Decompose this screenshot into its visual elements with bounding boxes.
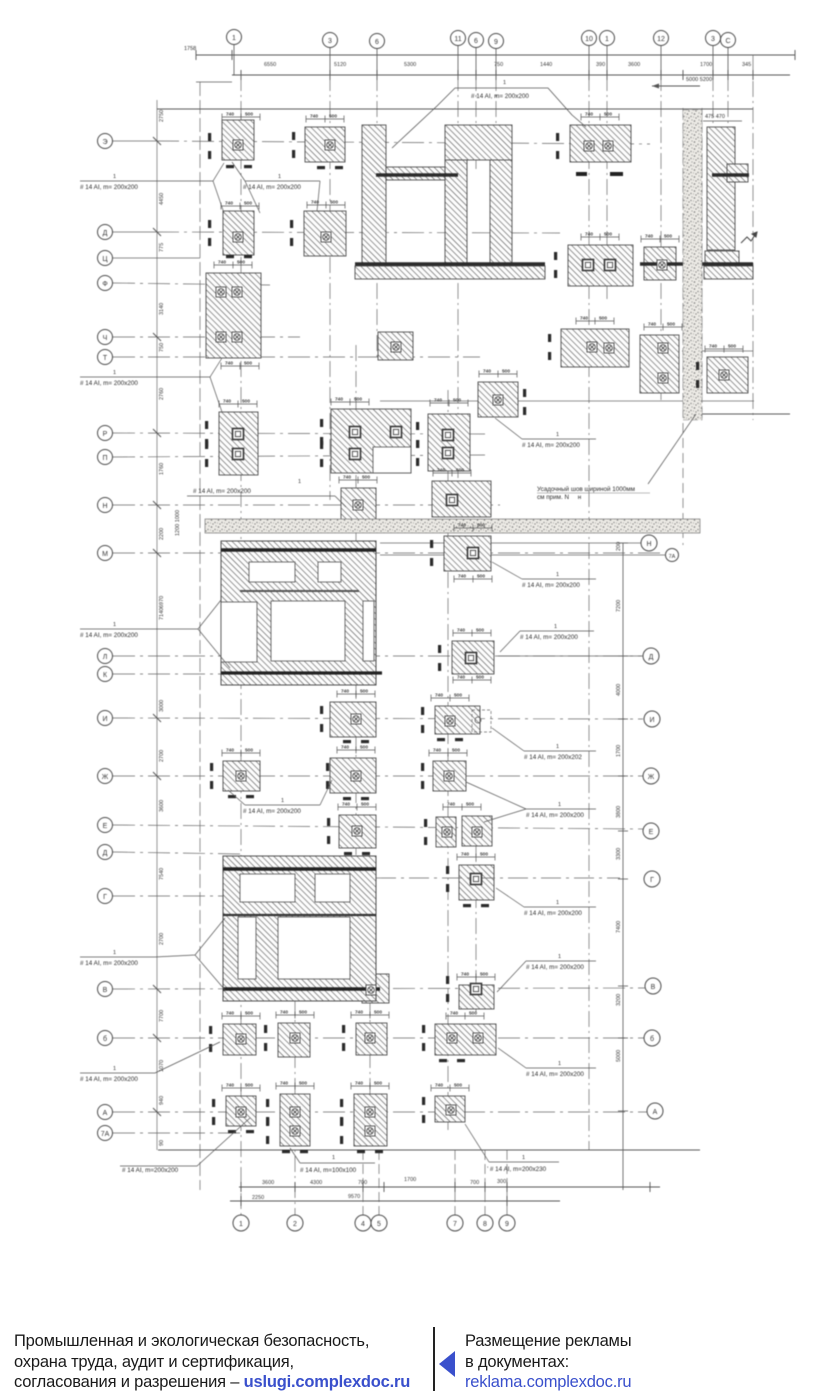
svg-text:Е: Е [103, 823, 108, 830]
svg-text:1: 1 [556, 572, 559, 578]
svg-text:# 14 AI, m= 200x200: # 14 AI, m= 200x200 [243, 184, 301, 191]
svg-text:7А: 7А [101, 1131, 110, 1138]
svg-text:3140: 3140 [159, 303, 165, 315]
bottom horizontal line y1150 [158, 1149, 700, 1151]
svg-text:2700: 2700 [159, 933, 165, 945]
label L20 [290, 1148, 375, 1174]
svg-text:390: 390 [596, 62, 605, 68]
label L10 [500, 624, 594, 652]
footing pad P30 row Г [459, 865, 494, 900]
label L9 [80, 600, 230, 668]
svg-text:И: И [649, 717, 654, 724]
big footing B1 rows Ф-Ч [206, 273, 261, 358]
svg-text:М: М [102, 551, 108, 558]
svg-text:# 14 AI, m= 200x200: # 14 AI, m= 200x200 [80, 960, 138, 967]
svg-text:Г: Г [650, 877, 654, 884]
svg-text:Н: Н [646, 541, 651, 548]
svg-text:1700: 1700 [616, 745, 622, 757]
heavy wall line mid left [355, 262, 545, 266]
footing pad P9 rows Р-П [331, 409, 411, 473]
svg-text:В: В [651, 984, 656, 991]
svg-text:1700: 1700 [700, 62, 712, 68]
hatch band under heavy line left [355, 266, 545, 279]
dim line y351 right [682, 350, 753, 352]
ring R2 heavy bottom line [223, 987, 380, 990]
svg-text:# 14 AI, m= 200x200: # 14 AI, m= 200x200 [80, 632, 138, 639]
label L7 joint note [537, 414, 696, 501]
footing pad P8 rows Р-П [219, 412, 258, 475]
svg-text:# 14 AI, m= 200x200: # 14 AI, m= 200x200 [193, 488, 251, 495]
svg-text:7540: 7540 [159, 868, 165, 880]
svg-text:1: 1 [503, 80, 506, 86]
svg-text:1: 1 [554, 624, 557, 630]
svg-text:2: 2 [293, 1221, 297, 1228]
footing pad P2 row Э [305, 127, 345, 162]
svg-text:940: 940 [159, 1096, 165, 1105]
heavy wall line top-right [376, 173, 458, 176]
footing pad P27 row Е [339, 815, 376, 848]
svg-text:3800: 3800 [616, 806, 622, 818]
svg-text:1: 1 [239, 1221, 243, 1228]
svg-text:1: 1 [522, 1155, 525, 1161]
svg-text:5000 5200: 5000 5200 [686, 77, 712, 83]
dim arrow [652, 85, 700, 87]
svg-text:1: 1 [281, 798, 284, 804]
north/section arrow [741, 232, 757, 243]
top axis circle labels [232, 35, 730, 46]
svg-text:Л: Л [103, 654, 108, 661]
svg-text:# 14 AI, m=100x100: # 14 AI, m=100x100 [300, 1167, 357, 1174]
svg-text:90: 90 [159, 1140, 165, 1146]
svg-text:1: 1 [298, 479, 301, 485]
svg-text:3600: 3600 [159, 800, 165, 812]
svg-text:700: 700 [470, 1180, 479, 1186]
svg-text:1700: 1700 [404, 1177, 416, 1183]
svg-text:Д: Д [103, 230, 108, 237]
svg-text:# 14 AI, m= 200x202: # 14 AI, m= 200x202 [524, 754, 582, 761]
footing pad P37 row А [280, 1094, 310, 1146]
ring R2 openings [238, 874, 350, 979]
svg-text:1: 1 [278, 174, 281, 180]
svg-text:3000: 3000 [159, 700, 165, 712]
svg-text:6: 6 [474, 38, 478, 45]
ring R2 heavy top line [223, 867, 376, 871]
right rotated dim numbers [616, 542, 622, 1062]
bottom dim numbers 1 [262, 1177, 506, 1186]
right vertical dim line [618, 543, 628, 1190]
footing pad P15 [705, 251, 739, 277]
footing pad P36 row А [226, 1096, 256, 1126]
label L13 [466, 782, 596, 822]
label L17 [80, 1042, 220, 1083]
svg-text:1: 1 [558, 954, 561, 960]
footing pad PR right [707, 357, 748, 393]
svg-text:1: 1 [113, 622, 116, 628]
svg-text:В: В [103, 987, 108, 994]
svg-text:2250: 2250 [252, 1195, 264, 1201]
svg-text:Е: Е [649, 829, 654, 836]
svg-text:Р: Р [103, 431, 108, 438]
label L8 [492, 562, 596, 589]
label L5 [495, 418, 596, 449]
svg-text:# 14 AI, m= 200x200: # 14 AI, m= 200x200 [526, 812, 584, 819]
footing pad P34 row б [356, 1023, 387, 1055]
svg-text:# 14 AI, m= 200x200: # 14 AI, m= 200x200 [524, 910, 582, 917]
svg-text:5300: 5300 [404, 62, 416, 68]
footing pad P23 row И [435, 706, 480, 734]
footing pad P11 [478, 382, 518, 417]
wall block S2 [445, 125, 512, 160]
svg-text:Ц: Ц [102, 256, 108, 263]
svg-text:1: 1 [113, 950, 116, 956]
svg-text:2700: 2700 [159, 750, 165, 762]
svg-text:1: 1 [556, 900, 559, 906]
footing pad P3 row Э [570, 125, 631, 162]
bottom dim line 2 [230, 1196, 560, 1206]
svg-text:# 14 AI, m= 200x200: # 14 AI, m= 200x200 [520, 634, 578, 641]
svg-text:700: 700 [358, 1180, 367, 1186]
svg-text:750: 750 [494, 62, 503, 68]
bottom dim numbers 2 [252, 1194, 360, 1201]
svg-text:3: 3 [711, 36, 715, 43]
bottom axis circles [233, 1215, 515, 1231]
footing pad P22 row И [330, 702, 376, 737]
svg-text:’ # 14 AI, m=200x230: ’ # 14 AI, m=200x230 [487, 1166, 547, 1173]
svg-text:9: 9 [494, 39, 498, 46]
dim numbers row [264, 62, 751, 68]
svg-text:4000: 4000 [616, 684, 622, 696]
wall bar S5 [386, 167, 445, 180]
top-left short line y82 [196, 81, 232, 83]
line from ring R2 to right [376, 877, 620, 879]
footing pad P6 row Ч [378, 332, 413, 360]
label L18 [498, 1048, 596, 1078]
label L11 [228, 780, 332, 815]
svg-text:750: 750 [159, 343, 165, 352]
footing pad P17 row Н [432, 481, 491, 517]
label L4 [80, 358, 222, 412]
shrinkage joint stipple band [205, 519, 700, 533]
footing pad P16 row Н [341, 488, 376, 521]
footing pad P35 row б [435, 1024, 496, 1055]
svg-text:5120: 5120 [334, 62, 346, 68]
left axis circles column [98, 134, 113, 1141]
ring R2 hatched body [223, 856, 376, 1001]
footing pad P24 row Ж [223, 761, 260, 791]
svg-text:б: б [650, 1035, 654, 1043]
svg-text:1070: 1070 [159, 1060, 165, 1072]
svg-text:1: 1 [113, 370, 116, 376]
ring R2 mid line [223, 914, 376, 916]
footing pad P19 row М [444, 536, 491, 571]
svg-text:7: 7 [453, 1221, 457, 1228]
svg-text:1: 1 [605, 36, 609, 43]
svg-text:475 470: 475 470 [705, 114, 725, 120]
top circle stems [234, 45, 728, 75]
footing pad P10 rows Р-П [428, 414, 470, 471]
ring R1 heavy bottom line [221, 671, 382, 674]
svg-text:1758: 1758 [184, 46, 196, 52]
svg-text:10: 10 [585, 36, 593, 43]
svg-text:А: А [653, 1109, 658, 1116]
svg-text:Т: Т [103, 355, 108, 362]
label L14 [496, 888, 596, 917]
bottom axis labels [239, 1221, 509, 1228]
label L19 [120, 1118, 250, 1174]
horizontal line y414 right [683, 413, 790, 415]
svg-text:5000: 5000 [616, 1050, 622, 1062]
label L1 [80, 163, 224, 213]
svg-text:7200: 7200 [616, 600, 622, 612]
svg-text:1: 1 [232, 35, 236, 42]
svg-text:б: б [103, 1035, 107, 1043]
right axis row stubs [380, 543, 665, 656]
wall strip S4 [490, 160, 512, 265]
footing pad PM tall [640, 335, 679, 393]
svg-text:3: 3 [328, 38, 332, 45]
wall strip S6 right [707, 127, 735, 250]
svg-text:Ж: Ж [648, 774, 655, 781]
svg-text:8: 8 [483, 1221, 487, 1228]
svg-text:5: 5 [377, 1221, 381, 1228]
svg-text:1: 1 [556, 744, 559, 750]
svg-text:С: С [725, 38, 730, 45]
horizontal line y401 [380, 400, 754, 402]
svg-text:# 14 AI, m=200x200: # 14 AI, m=200x200 [122, 1167, 179, 1174]
ring R1 mid line [240, 590, 359, 592]
svg-text:12: 12 [657, 36, 665, 43]
svg-text:3600: 3600 [628, 62, 640, 68]
svg-text:2750: 2750 [159, 110, 165, 122]
label L12 [492, 728, 596, 761]
footing pad P32 row б [223, 1024, 256, 1055]
svg-text:Усадочный шов шириной 1000мм: Усадочный шов шириной 1000мм [537, 485, 635, 493]
svg-text:1440: 1440 [540, 62, 552, 68]
svg-text:Ж: Ж [102, 774, 109, 781]
bold dim tick pairs [205, 132, 699, 1153]
bottom dim line 1 [239, 1182, 660, 1192]
footing pad P25 row Ж [330, 758, 376, 793]
svg-text:1: 1 [556, 432, 559, 438]
label L6 [187, 479, 346, 507]
vertical grid lines [157, 55, 753, 1215]
footing pad P14 [644, 247, 676, 280]
svg-text:Э: Э [102, 139, 107, 146]
svg-text:3600: 3600 [262, 1180, 274, 1186]
wall block S7 right [727, 164, 748, 182]
svg-text:1: 1 [113, 174, 116, 180]
svg-text:11: 11 [454, 36, 461, 43]
svg-text:4450: 4450 [159, 193, 165, 205]
right axis circles [641, 535, 679, 1119]
svg-text:Д: Д [649, 654, 654, 661]
svg-text:# 14 AI, m= 200x200: # 14 AI, m= 200x200 [522, 442, 580, 449]
heavy wall line mid right [640, 262, 753, 266]
svg-text:# 14 AI, m= 200x200: # 14 AI, m= 200x200 [471, 93, 529, 100]
svg-text:6970: 6970 [159, 596, 165, 608]
svg-text:Н: Н [102, 503, 107, 510]
svg-text:# 14 AI, m= 200x200: # 14 AI, m= 200x200 [526, 964, 584, 971]
left axis row lines [113, 141, 664, 1133]
svg-text:9570: 9570 [348, 1194, 360, 1200]
svg-text:Ф: Ф [102, 281, 107, 288]
svg-text:# 14 AI, m= 200x200: # 14 AI, m= 200x200 [80, 380, 138, 387]
top dimension line A [196, 50, 795, 60]
label L15 [80, 918, 225, 990]
svg-text:1200 1000: 1200 1000 [175, 510, 181, 536]
svg-text:1: 1 [113, 1066, 116, 1072]
top axis circle 1 [227, 30, 736, 49]
footing pad P13 [568, 245, 633, 286]
ring R1 hatched body [221, 541, 376, 685]
svg-text:6: 6 [375, 39, 379, 46]
svg-text:1: 1 [558, 802, 561, 808]
footing pad P31 row В [459, 985, 494, 1009]
right axis letters [646, 541, 675, 1116]
label L16 [497, 954, 596, 992]
svg-text:4300: 4300 [310, 1180, 322, 1186]
svg-text:# 14 AI, m= 200x200: # 14 AI, m= 200x200 [80, 184, 138, 191]
svg-text:П: П [102, 455, 107, 462]
dashed attachment at P23 [472, 710, 491, 732]
wall strip S1 [362, 125, 386, 265]
footing pad P12 wide [561, 329, 629, 367]
svg-text:7700: 7700 [159, 1010, 165, 1022]
svg-text:# 14 AI, m= 200x200: # 14 AI, m= 200x200 [80, 1076, 138, 1083]
svg-text:2760: 2760 [159, 388, 165, 400]
label L3 callout [392, 80, 586, 148]
heavy wall line S6 [712, 173, 749, 176]
svg-text:# 14 AI, m= 200x200: # 14 AI, m= 200x200 [522, 582, 580, 589]
left rotated dimension numbers [159, 110, 181, 1146]
svg-text:7А: 7А [669, 554, 676, 560]
footing pad P1 row Э [222, 120, 254, 160]
svg-text:# 14 AI, m= 200x200: # 14 AI, m= 200x200 [243, 808, 301, 815]
hatch band under heavy line right [704, 266, 753, 279]
svg-text:1: 1 [558, 1061, 561, 1067]
svg-text:Д: Д [103, 850, 108, 857]
svg-text:3300: 3300 [616, 848, 622, 860]
svg-text:6550: 6550 [264, 62, 276, 68]
shrinkage joint stipple strip vertical [683, 110, 702, 420]
footing pad P21 row Л [452, 641, 494, 674]
top dimension line B with ticks [232, 70, 790, 80]
label L21 [465, 1124, 559, 1173]
footing pad P38 row А [354, 1094, 387, 1146]
footing pad P28 row Е [436, 817, 456, 847]
footing pad P5 row Д [304, 211, 346, 256]
svg-text:7400: 7400 [616, 921, 622, 933]
svg-text:1760: 1760 [159, 463, 165, 475]
footing pad P4 row Д [223, 211, 254, 255]
svg-text:775: 775 [159, 243, 165, 252]
svg-text:7140: 7140 [159, 608, 165, 620]
footing pad P29 row Е [462, 816, 492, 846]
label L2 [232, 162, 320, 213]
ring2 corner pad row В [362, 974, 389, 1003]
svg-text:9: 9 [505, 1221, 509, 1228]
svg-text:3200: 3200 [616, 994, 622, 1006]
footing pad P39 row А [435, 1096, 465, 1122]
svg-text:1: 1 [332, 1155, 335, 1161]
left border ticks [153, 137, 161, 1116]
ring R1 heavy top line [221, 548, 376, 552]
wall strip S3 [445, 160, 467, 265]
left axis letters [101, 139, 110, 1138]
svg-text:И: И [102, 716, 107, 723]
svg-text:4: 4 [361, 1221, 365, 1228]
footing pad P33 row б [278, 1023, 310, 1057]
horizontal frame line y109 [157, 108, 753, 110]
footing pad P26 row Ж [433, 761, 466, 791]
svg-text:300: 300 [497, 1179, 506, 1185]
ring R1 openings [221, 562, 374, 662]
svg-text:Г: Г [103, 894, 107, 901]
svg-text:345: 345 [742, 62, 751, 68]
svg-text:# 14 AI, m= 200x200: # 14 AI, m= 200x200 [526, 1071, 584, 1078]
svg-text:Ч: Ч [103, 335, 108, 342]
svg-text:А: А [103, 1110, 108, 1117]
svg-text:см прим. N н: см прим. N н [537, 494, 582, 501]
svg-text:2200: 2200 [159, 528, 165, 540]
